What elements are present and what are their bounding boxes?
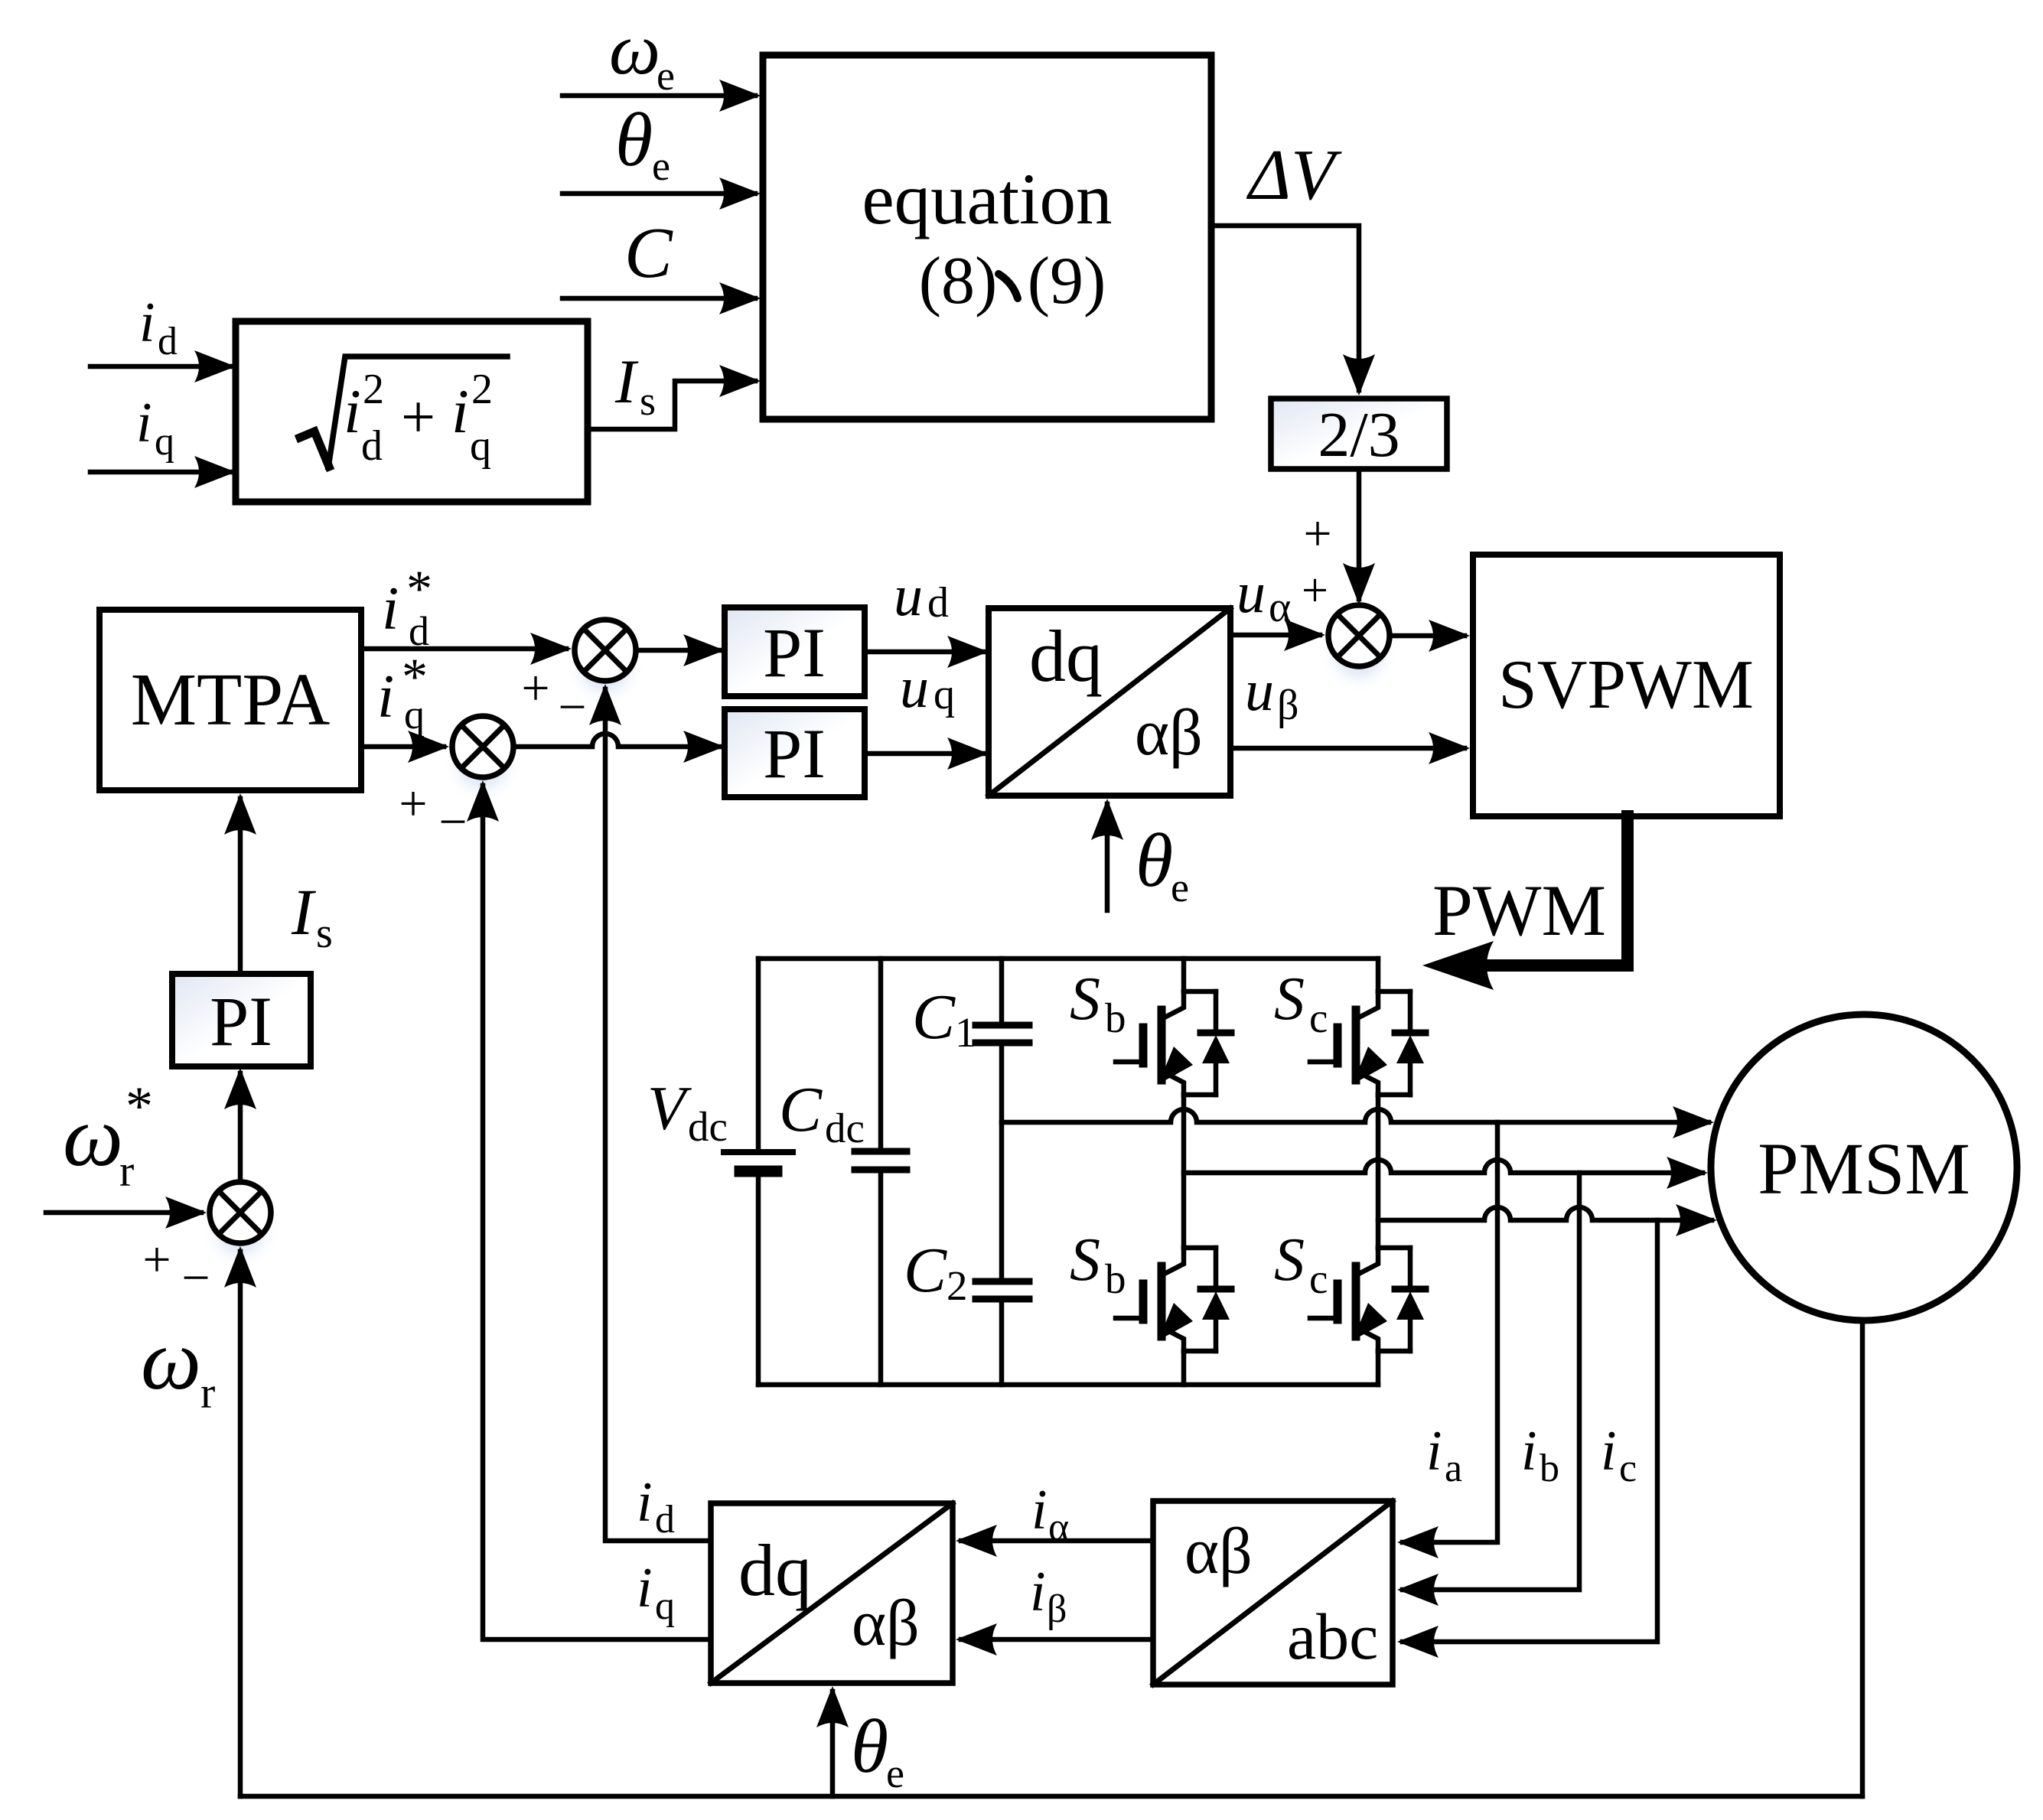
svg-text:r: r	[200, 1368, 215, 1418]
svg-text:−: −	[558, 679, 586, 735]
wire DeltaV from equation to 2/3	[1211, 135, 1375, 396]
svg-text:I: I	[291, 875, 316, 949]
wire ic sensor	[1397, 1220, 1657, 1658]
summing junction sum2	[399, 716, 523, 850]
svg-text:i: i	[377, 663, 394, 731]
svg-text:i: i	[1426, 1420, 1442, 1483]
block PI1	[725, 607, 865, 696]
wire id feedback	[589, 684, 711, 1542]
wire id into sqrt	[90, 291, 236, 383]
svg-text:(9): (9)	[1028, 244, 1106, 318]
block PI2	[725, 709, 865, 797]
svg-text:ω: ω	[63, 1089, 123, 1184]
wire ibeta	[956, 1561, 1153, 1656]
svg-text:PWM: PWM	[1432, 870, 1606, 951]
transistor Sc lower	[1274, 1226, 1426, 1385]
wire phase c line with hops	[1378, 1204, 1717, 1236]
wire iq* MTPA to sum2	[361, 647, 449, 763]
svg-text:−: −	[438, 794, 467, 850]
svg-text:αβ: αβ	[1135, 695, 1203, 769]
svg-text:αβ: αβ	[1184, 1514, 1253, 1587]
svg-text:S: S	[1274, 965, 1305, 1033]
svg-text:C: C	[779, 1074, 823, 1145]
wire sum2 to PI2 with hop	[516, 731, 725, 763]
svg-text:d: d	[158, 320, 178, 363]
svg-text:c: c	[1619, 1447, 1637, 1490]
svg-text:r: r	[119, 1146, 134, 1196]
wire ubeta dq1 to SVPWM	[1230, 659, 1470, 764]
wire iq feedback	[467, 780, 711, 1639]
svg-text:d: d	[655, 1498, 675, 1542]
svg-text:θ: θ	[615, 97, 653, 182]
wire omega_r* input	[46, 1076, 207, 1229]
svg-text:q: q	[655, 1584, 675, 1628]
svg-text:+: +	[1303, 506, 1331, 562]
svg-text:−: −	[181, 1250, 210, 1306]
svg-text:i: i	[136, 392, 152, 454]
svg-text:2: 2	[471, 366, 493, 413]
wire theta_e into dq1	[1091, 799, 1189, 910]
block equation(8)(9)	[763, 55, 1211, 419]
svg-text:C: C	[904, 1235, 947, 1306]
svg-text:u: u	[900, 656, 929, 720]
wire sum4 to PIs	[224, 1068, 256, 1179]
svg-text:V: V	[647, 1073, 692, 1143]
svg-text:α: α	[1269, 584, 1291, 631]
wire leg c middle	[1376, 1095, 1381, 1248]
svg-text:q: q	[155, 420, 174, 464]
svg-text:ΔV: ΔV	[1246, 135, 1342, 215]
svg-text:2/3: 2/3	[1318, 399, 1399, 470]
wire leg b middle	[1181, 1095, 1187, 1248]
svg-text:i: i	[1601, 1420, 1617, 1483]
svg-text:i: i	[637, 1557, 653, 1620]
summing junction sum4	[142, 1182, 280, 1306]
svg-text:PI: PI	[763, 715, 826, 793]
svg-text:u: u	[894, 564, 923, 628]
svg-text:+: +	[142, 1232, 171, 1288]
svg-text:a: a	[1445, 1447, 1462, 1490]
svg-text:αβ: αβ	[852, 1586, 920, 1659]
svg-text:PI: PI	[210, 982, 272, 1060]
svg-text:(8): (8)	[919, 244, 998, 318]
svg-text:i: i	[344, 376, 361, 446]
summing junction sum3	[1319, 605, 1399, 694]
summing junction sum1	[521, 620, 645, 735]
wire 2/3 to sum3	[1303, 469, 1375, 604]
block dq2 alphabeta to dq	[711, 1503, 953, 1683]
svg-text:C: C	[624, 213, 673, 293]
capacitor C2	[904, 1046, 1029, 1385]
svg-text:+: +	[1302, 565, 1328, 617]
svg-text:α: α	[1048, 1506, 1069, 1549]
motor PMSM	[1711, 1014, 2017, 1320]
svg-text:s: s	[316, 910, 333, 957]
wire theta_e input	[562, 97, 761, 210]
svg-text:i: i	[1030, 1561, 1046, 1623]
svg-text:b: b	[1540, 1447, 1559, 1490]
svg-text:q: q	[470, 422, 491, 470]
svg-text:abc: abc	[1287, 1600, 1378, 1673]
battery Vdc	[647, 959, 793, 1385]
svg-text:dc: dc	[688, 1103, 728, 1150]
svg-text:ω: ω	[141, 1313, 201, 1408]
svg-text:2: 2	[363, 366, 384, 413]
svg-text:dq: dq	[738, 1529, 812, 1611]
transistor Sb lower	[1070, 1226, 1231, 1385]
capacitor Cdc	[779, 959, 907, 1385]
svg-text:i: i	[1031, 1479, 1048, 1542]
svg-text:*: *	[125, 1076, 153, 1137]
wire inverter bottom rail	[758, 1382, 1378, 1388]
svg-text:S: S	[1070, 1226, 1100, 1294]
wire sum1 to PI1	[639, 634, 725, 666]
wire ud PI1 to dq1	[865, 564, 989, 668]
svg-text:+: +	[401, 384, 435, 451]
svg-text:PMSM: PMSM	[1758, 1128, 1970, 1210]
svg-text:e: e	[1171, 864, 1189, 910]
svg-text:C: C	[912, 982, 956, 1053]
svg-text:dc: dc	[825, 1105, 865, 1151]
svg-text:e: e	[652, 143, 670, 189]
svg-text:ω: ω	[609, 8, 660, 90]
svg-text:e: e	[657, 53, 675, 99]
svg-text:θ: θ	[851, 1704, 888, 1789]
block SVPWM	[1473, 555, 1780, 816]
svg-text:i: i	[451, 376, 469, 446]
svg-text:equation: equation	[862, 158, 1112, 239]
svg-text:q: q	[404, 692, 425, 737]
svg-text:d: d	[361, 422, 383, 470]
svg-text:i: i	[637, 1471, 653, 1534]
block sqrt(id^2+iq^2)	[236, 321, 588, 502]
wire C input	[562, 213, 761, 314]
svg-text:i: i	[1521, 1420, 1537, 1483]
svg-text:q: q	[934, 671, 955, 718]
svg-text:θ: θ	[1136, 818, 1173, 903]
wire ib sensor	[1397, 1173, 1579, 1606]
svg-text:e: e	[886, 1750, 904, 1796]
svg-text:I: I	[614, 347, 639, 416]
svg-text:dq: dq	[1029, 615, 1103, 697]
block 2/3	[1271, 399, 1447, 470]
wire id* MTPA to sum1	[361, 559, 572, 665]
svg-text:β: β	[1047, 1587, 1067, 1631]
svg-text:b: b	[1105, 995, 1126, 1041]
svg-text:PI: PI	[763, 614, 826, 692]
svg-text:c: c	[1309, 1255, 1328, 1302]
wire Is PIs to MTPA	[224, 793, 333, 971]
wire PWM thick	[1422, 816, 1628, 990]
capacitor C1	[912, 959, 1029, 1056]
wire inverter top rail	[758, 956, 1378, 962]
block PI speed	[172, 974, 311, 1066]
svg-text:u: u	[1245, 659, 1274, 723]
svg-text:MTPA: MTPA	[131, 659, 331, 741]
wire sum3 to SVPWM	[1393, 620, 1470, 652]
wire bottom feedback line	[240, 1794, 1862, 1799]
svg-text:u: u	[1237, 561, 1266, 625]
svg-text:+: +	[399, 776, 427, 832]
svg-text:2: 2	[947, 1262, 968, 1309]
svg-text:SVPWM: SVPWM	[1498, 646, 1754, 723]
transistor Sb upper	[1070, 959, 1231, 1095]
wire ialpha	[956, 1479, 1153, 1557]
svg-text:1: 1	[955, 1009, 976, 1056]
svg-text:i: i	[139, 291, 155, 354]
svg-text:S: S	[1274, 1226, 1305, 1294]
wire theta_e into dq2	[816, 1686, 904, 1796]
svg-text:s: s	[640, 378, 656, 424]
block MTPA	[99, 610, 361, 790]
wire iq into sqrt	[90, 392, 236, 488]
svg-text:d: d	[927, 579, 949, 627]
svg-text:b: b	[1105, 1255, 1126, 1302]
wire phase b line with hops	[1184, 1157, 1708, 1189]
transistor Sc upper	[1274, 959, 1426, 1095]
wire omega_r feedback vertical	[141, 1246, 256, 1796]
svg-text:c: c	[1309, 995, 1328, 1041]
block dq1 dq to alphabeta	[989, 608, 1230, 796]
wire PMSM shaft down	[1860, 1320, 1865, 1796]
block abc to alphabeta	[1153, 1501, 1393, 1685]
svg-text:β: β	[1277, 682, 1299, 729]
wire ia sensor	[1397, 1122, 1497, 1558]
wire uq PI2 to dq1	[865, 656, 989, 770]
svg-text:+: +	[521, 660, 549, 716]
wire omega_e input	[562, 8, 761, 112]
wire phase a line with hops	[1002, 1106, 1714, 1138]
wire ualpha dq1 to sum3	[1230, 561, 1328, 651]
svg-text:S: S	[1070, 965, 1100, 1033]
wire Is from sqrt to equation	[588, 347, 761, 429]
svg-text:i: i	[382, 575, 399, 643]
